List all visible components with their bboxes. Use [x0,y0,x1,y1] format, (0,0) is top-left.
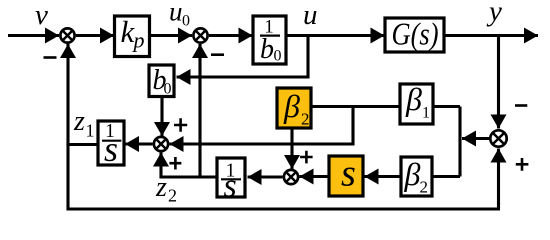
svg-text:u: u [169,0,183,26]
sign plus top at S3 [174,118,187,132]
wire bus to beta2 white input [432,175,460,178]
svg-text:1: 1 [86,121,95,141]
block beta2 white [401,156,432,197]
wire 1/b0 to G(s) [286,34,385,37]
wire beta2 white output to s block [365,175,402,178]
block s orange [329,153,363,197]
summing junction S3 [154,137,168,151]
block beta1 [400,81,433,124]
wire v input [8,34,59,37]
sign plus at S4 [300,151,313,164]
sign minus at S2 [211,53,224,56]
wire tee down to sum3 right input [170,107,354,145]
wire sum5 output left to error bus [462,137,490,140]
wire sum2 to 1/b0 [209,34,253,37]
wire orange beta2 output down to sum4 [290,128,293,170]
svg-text:0: 0 [274,48,282,65]
wire beta1 output to orange beta2 [311,105,400,108]
svg-text:s: s [341,153,356,195]
svg-text:2: 2 [420,178,429,197]
svg-text:2: 2 [168,186,177,206]
svg-text:G(s): G(s) [392,16,439,52]
svg-text:1: 1 [422,105,430,122]
wire sum4 output to 1/s z2 [248,175,283,178]
block 1/b0 [253,16,286,65]
block kp [115,14,150,57]
block 1/s z2 integrator [217,158,245,205]
block 1/s z1 integrator [98,121,124,169]
wire z1 up to sum1 [66,44,69,146]
wire kp to sum2 [150,34,193,37]
svg-text:z: z [73,106,85,137]
wire sum3 output to 1/s z1 [125,142,153,145]
svg-text:0: 0 [164,81,172,98]
wire G(s) to output y [444,34,538,37]
sign plus at S5 [516,158,529,171]
wire y branch down to sum5 [497,36,500,129]
sign plus bottom at S3 [169,157,181,170]
wire z1 down along bottom up to sum5 [68,143,499,209]
wire b0 output down to sum3 [160,96,163,136]
wire sum1 to kp [76,34,114,37]
wire u branch down and left to b0 input [177,36,309,78]
svg-text:s: s [104,129,118,169]
svg-text:β: β [405,81,422,117]
wire z2 tee up to sum2 [198,44,201,177]
summing junction S5 [490,130,506,146]
svg-text:y: y [486,0,502,28]
sign minus at S1 [44,56,57,59]
svg-text:z: z [155,172,167,203]
svg-text:p: p [132,28,145,53]
summing junction S2 [193,28,207,42]
sign minus at S5 [515,104,527,107]
svg-text:v: v [35,0,48,31]
wire error bus vertical [458,107,461,177]
svg-text:2: 2 [301,110,310,129]
block beta2 orange [277,88,311,129]
wire s output to sum4 [300,175,330,178]
wire z2 output left and up to sum3 [161,153,217,178]
svg-text:β: β [404,156,421,192]
svg-text:u: u [303,0,318,31]
svg-text:β: β [283,88,300,124]
block G(s) [385,16,444,53]
summing junction S4 [284,170,298,184]
svg-text:0: 0 [182,13,190,30]
block b0 [149,65,174,98]
svg-text:s: s [224,168,237,205]
summing junction S1 [60,28,74,42]
wire bus to beta1 input [433,105,460,108]
svg-text:b: b [260,34,274,65]
wire z1 output left [68,143,98,146]
